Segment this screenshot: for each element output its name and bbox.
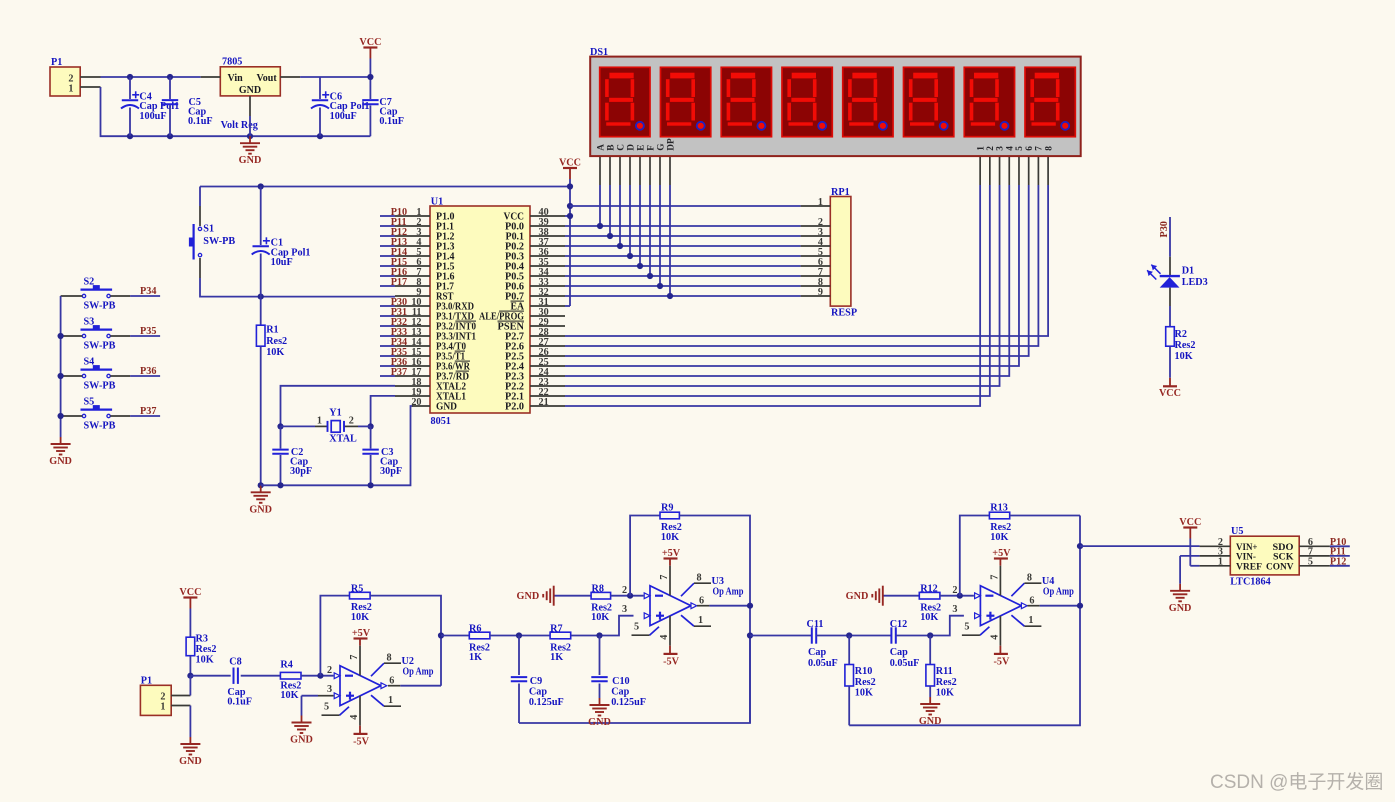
wire net P37 — [380, 375, 395, 377]
wire U2 out to R6 — [441, 635, 469, 637]
svg-text:10uF: 10uF — [271, 257, 293, 268]
wire S1 bottom to RST — [199, 258, 201, 278]
svg-text:8: 8 — [387, 653, 392, 664]
display DS1 8-digit seven-segment — [590, 57, 1080, 157]
svg-text:10K: 10K — [591, 612, 609, 623]
wire P2.4 row to DS1 digit pin 5 — [565, 185, 1019, 366]
wire P2.0 row to DS1 digit pin 1 — [565, 185, 980, 406]
svg-text:C12: C12 — [890, 619, 908, 630]
wire R6 to R7 — [490, 635, 550, 637]
pin U1-33 P0.6 — [530, 285, 565, 287]
junction — [277, 482, 283, 488]
svg-text:SW-PB: SW-PB — [84, 420, 116, 431]
wire DS1 segment pin B — [609, 156, 611, 185]
svg-text:C: C — [616, 144, 626, 151]
svg-text:1: 1 — [1218, 557, 1223, 568]
svg-text:30pF: 30pF — [380, 466, 402, 477]
wire net P36 — [380, 365, 395, 367]
svg-text:GND: GND — [919, 716, 942, 727]
seven-segment digit cell 2 — [660, 67, 710, 136]
junction — [258, 183, 264, 189]
wire net P15 — [380, 265, 395, 267]
svg-text:GND: GND — [1169, 603, 1192, 614]
seven-segment digit cell 8 — [1025, 67, 1075, 136]
svg-text:5: 5 — [1015, 146, 1025, 151]
pin U1-37 P0.2 — [530, 245, 565, 247]
junction — [1077, 603, 1083, 609]
ground symbol GND of 7805 — [249, 136, 251, 143]
seven-segment digit cell 1 — [600, 67, 650, 136]
switch S2 SW-PB net P34 — [81, 289, 113, 291]
svg-text:S5: S5 — [84, 397, 95, 408]
pin U1-12 P3.2/INT0 — [395, 325, 430, 327]
wire P1 pin1 to ground — [189, 706, 191, 738]
svg-text:0.125uF: 0.125uF — [529, 697, 564, 708]
resistor R10 Res2 10K — [848, 636, 850, 665]
resistor R2 Res2 10K — [1166, 327, 1175, 347]
svg-text:GND: GND — [239, 85, 261, 96]
pin U1-17 P3.7/RD — [395, 375, 430, 377]
junction — [647, 273, 653, 279]
resistor R3 Res2 10K — [186, 637, 195, 656]
svg-text:6: 6 — [389, 675, 394, 686]
svg-text:CSDN @电子开发圈: CSDN @电子开发圈 — [1210, 771, 1383, 793]
wire net P34 — [380, 345, 395, 347]
svg-text:R1: R1 — [266, 325, 278, 336]
svg-text:RESP: RESP — [831, 307, 857, 318]
svg-text:R12: R12 — [920, 584, 938, 595]
capacitor C1 Cap Pol1 10uF — [260, 187, 262, 246]
pin U1-38 P0.1 — [530, 235, 565, 237]
pin RP1-3 — [801, 235, 831, 237]
wire R2 to VCC — [1169, 346, 1171, 378]
svg-text:8: 8 — [1027, 573, 1032, 584]
wire VCC pin40 — [565, 215, 570, 217]
LED emission arrows — [1151, 265, 1160, 274]
wire net P33 — [380, 335, 395, 337]
pin U1-26 P2.5 — [530, 355, 565, 357]
svg-text:P35: P35 — [140, 326, 156, 337]
svg-text:Res2: Res2 — [1175, 340, 1196, 351]
svg-text:P34: P34 — [140, 286, 156, 297]
pin RP1-1 — [801, 205, 831, 207]
svg-text:2: 2 — [986, 146, 996, 151]
svg-text:C8: C8 — [229, 657, 241, 668]
svg-text:SW-PB: SW-PB — [84, 380, 116, 391]
pin P1-2 — [80, 76, 100, 78]
wire VCC to RP1 pin1 — [570, 205, 801, 207]
svg-text:21: 21 — [539, 397, 549, 408]
svg-text:8: 8 — [1044, 146, 1054, 151]
capacitor C2 Cap 30pF — [280, 426, 282, 448]
wire key ground rail — [60, 296, 62, 437]
svg-text:GND: GND — [517, 591, 540, 602]
junction — [667, 293, 673, 299]
resistor R13 Res2 10K feedback — [960, 516, 990, 596]
svg-text:5: 5 — [964, 622, 969, 633]
svg-text:Y1: Y1 — [329, 408, 341, 419]
svg-text:-5V: -5V — [663, 657, 679, 668]
pin U1-14 P3.4/T0 — [395, 345, 430, 347]
resistor R7 Res2 1K — [550, 632, 571, 639]
wire U4 output — [1027, 605, 1039, 607]
svg-text:4: 4 — [1005, 146, 1015, 151]
wire net P10 — [380, 215, 395, 217]
pin U1-4 P1.3 — [395, 245, 430, 247]
svg-text:F: F — [646, 145, 656, 151]
pin U1-25 P2.4 — [530, 365, 565, 367]
pin U1-2 P1.1 — [395, 225, 430, 227]
pin P1-2 — [171, 695, 190, 697]
svg-text:R8: R8 — [592, 584, 604, 595]
junction — [127, 74, 133, 80]
resistor pack RP1 RESP — [830, 197, 851, 307]
wire P2.6 row to DS1 digit pin 7 — [565, 185, 1038, 346]
svg-text:4: 4 — [349, 715, 360, 720]
svg-text:10K: 10K — [266, 347, 284, 358]
svg-text:9: 9 — [818, 287, 823, 298]
ground symbol GND at U4 pin2 (R12) — [883, 595, 920, 597]
pin RP1-4 — [801, 245, 831, 247]
capacitor C10 Cap 0.125uF — [599, 636, 601, 676]
svg-text:U4: U4 — [1042, 576, 1054, 587]
svg-text:Res2: Res2 — [196, 644, 217, 655]
svg-text:P1: P1 — [141, 675, 152, 686]
wire P2.1 row to DS1 digit pin 2 — [565, 185, 990, 396]
pin P1-1 — [171, 705, 190, 707]
junction — [657, 283, 663, 289]
svg-text:0.125uF: 0.125uF — [611, 697, 646, 708]
svg-text:R4: R4 — [280, 659, 292, 670]
svg-text:P37: P37 — [140, 406, 156, 417]
pin RP1-8 — [801, 285, 831, 287]
wire P0.3 row — [565, 255, 801, 257]
svg-text:2: 2 — [622, 585, 627, 596]
svg-text:C11: C11 — [807, 619, 824, 630]
svg-text:7: 7 — [1035, 146, 1045, 151]
wire net P30 — [380, 305, 395, 307]
pin RP1-5 — [801, 255, 831, 257]
svg-text:1: 1 — [1028, 615, 1033, 626]
svg-text:GND: GND — [49, 456, 72, 467]
svg-text:CONV: CONV — [1266, 561, 1294, 572]
pin U1-6 P1.5 — [395, 265, 430, 267]
svg-text:3: 3 — [996, 146, 1006, 151]
svg-text:1K: 1K — [469, 652, 482, 663]
capacitor C5 Cap 0.1uF — [169, 77, 171, 99]
capacitor C7 Cap 0.1uF — [369, 77, 371, 99]
pin U1-9 RST — [395, 295, 430, 297]
pin U5-2 VIN+ — [1200, 545, 1231, 547]
svg-text:100uF: 100uF — [330, 111, 357, 122]
svg-text:S4: S4 — [84, 357, 95, 368]
wire XTAL ground rail to U1 GND pin20 — [261, 406, 413, 485]
svg-text:U2: U2 — [402, 656, 414, 667]
wire VCC reset rail — [200, 186, 570, 188]
pin U5-7 SCK — [1299, 555, 1330, 557]
wire input rail to 7805 Vin — [101, 76, 201, 78]
junction — [596, 632, 602, 638]
wire C12 to U4 pin3 riser — [896, 616, 964, 636]
svg-text:GND: GND — [179, 756, 202, 767]
svg-text:6: 6 — [1029, 595, 1034, 606]
svg-text:VREF: VREF — [1236, 561, 1262, 572]
pin U1-23 P2.2 — [530, 385, 565, 387]
svg-text:Cap: Cap — [529, 687, 547, 698]
svg-text:S3: S3 — [84, 317, 95, 328]
pin U1-32 P0.7 — [530, 295, 565, 297]
svg-text:2: 2 — [349, 415, 354, 426]
pin U1-7 P1.6 — [395, 275, 430, 277]
wire P30 to LED — [1169, 217, 1171, 257]
capacitor C6 Cap Pol1 100uF — [319, 77, 321, 99]
svg-text:Cap: Cap — [611, 687, 629, 698]
junction — [567, 183, 573, 189]
wire net P12 — [380, 235, 395, 237]
power port VCC bottom (LED) — [1169, 378, 1171, 387]
svg-text:R5: R5 — [351, 584, 363, 595]
IC U1 8051 — [430, 206, 530, 413]
wire C11 to C12 — [816, 635, 891, 637]
wire net P12 — [1330, 565, 1350, 567]
op-amp U3 — [650, 586, 691, 626]
svg-text:S1: S1 — [203, 224, 214, 235]
wire C9 bottom rail to U3 output — [519, 636, 750, 724]
svg-text:VCC: VCC — [559, 158, 581, 169]
svg-text:10K: 10K — [196, 655, 214, 666]
wire P0.0 row — [565, 225, 801, 227]
wire P0.6 row — [565, 285, 801, 287]
junction — [258, 294, 264, 300]
svg-text:0.1uF: 0.1uF — [379, 116, 404, 127]
svg-text:20: 20 — [411, 397, 421, 408]
pin U1-8 P1.7 — [395, 285, 430, 287]
svg-text:R9: R9 — [661, 503, 673, 514]
svg-text:+5V: +5V — [352, 628, 371, 639]
pin U1-3 P1.2 — [395, 235, 430, 237]
pin 7805 Vout — [280, 76, 300, 78]
svg-text:Res2: Res2 — [936, 677, 957, 688]
pin U1-34 P0.5 — [530, 275, 565, 277]
wire net P10 — [1330, 545, 1350, 547]
ground symbol GND of C10 — [599, 698, 601, 705]
seven-segment digit cell 3 — [721, 67, 771, 136]
svg-text:-5V: -5V — [353, 737, 369, 748]
junction — [258, 482, 264, 488]
wire XTAL1 pin19 — [371, 396, 395, 427]
capacitor C11 Cap 0.05uF — [811, 627, 813, 643]
pin P1-1 — [80, 86, 100, 88]
svg-text:U5: U5 — [1231, 526, 1243, 537]
junction — [317, 673, 323, 679]
wire P2.3 row to DS1 digit pin 4 — [565, 185, 1009, 376]
pin U1-19 XTAL1 — [395, 395, 430, 397]
svg-text:R2: R2 — [1175, 329, 1187, 340]
wire P0.5 row — [565, 275, 801, 277]
connector P1 (signal input) — [140, 685, 171, 715]
pin U1-35 P0.4 — [530, 265, 565, 267]
svg-text:GND: GND — [249, 504, 272, 515]
wire net P13 — [380, 245, 395, 247]
svg-text:10K: 10K — [280, 690, 298, 701]
pin U1-27 P2.6 — [530, 345, 565, 347]
svg-text:10K: 10K — [920, 612, 938, 623]
svg-text:0.1uF: 0.1uF — [227, 697, 252, 708]
seven-segment digit cell 6 — [904, 67, 954, 136]
svg-text:GND: GND — [588, 717, 611, 728]
wire net P11 — [380, 225, 395, 227]
pin RP1-2 — [801, 225, 831, 227]
capacitor C9 Cap 0.125uF — [518, 636, 520, 676]
wire R9 to output vertical — [679, 516, 750, 724]
wire DS1 segment pin D — [629, 156, 631, 185]
wire DS1 segment pin A — [599, 156, 601, 185]
wire DS1 segment pin E — [639, 156, 641, 185]
svg-text:GND: GND — [239, 155, 262, 166]
junction — [607, 233, 613, 239]
svg-text:Cap: Cap — [890, 647, 908, 658]
wire net P31 — [380, 315, 395, 317]
svg-text:+5V: +5V — [992, 548, 1011, 559]
wire P1 pin1 to ground rail — [101, 87, 371, 136]
pin 7805 GND — [249, 96, 251, 116]
wire C8 to R4 — [241, 675, 281, 677]
junction — [927, 632, 933, 638]
svg-text:D1: D1 — [1182, 266, 1194, 277]
svg-text:VCC: VCC — [179, 587, 201, 598]
diode D1 LED3 — [1160, 275, 1180, 277]
svg-text:SW-PB: SW-PB — [203, 236, 235, 247]
svg-text:B: B — [606, 144, 616, 150]
svg-text:2: 2 — [952, 585, 957, 596]
svg-text:1: 1 — [317, 415, 322, 426]
resistor R1 Res2 10K — [260, 297, 262, 326]
wire XTAL2 pin18 — [281, 386, 396, 427]
ground symbol GND of keys — [60, 437, 62, 444]
pin U1-5 P1.4 — [395, 255, 430, 257]
wire U2 pin3 to GND — [302, 695, 319, 697]
resistor R4 Res2 10K — [280, 672, 301, 679]
svg-text:10K: 10K — [1175, 351, 1193, 362]
pin RP1-7 — [801, 275, 831, 277]
wire P0.7 row — [565, 295, 801, 297]
wire Vout to VCC corner — [300, 76, 370, 78]
svg-text:C10: C10 — [612, 676, 630, 687]
wire net P14 — [380, 255, 395, 257]
svg-text:Res2: Res2 — [855, 677, 876, 688]
wire P0.2 row — [565, 245, 801, 247]
op-amp U2 — [340, 666, 381, 706]
wire U2 output — [388, 685, 400, 687]
pin U1-40 VCC — [530, 215, 565, 217]
svg-text:Op Amp: Op Amp — [1043, 587, 1074, 598]
pin U1-13 P3.3/INT1 — [395, 335, 430, 337]
svg-text:1: 1 — [818, 197, 823, 208]
wire R8 to U3 pin2 — [611, 595, 644, 597]
junction VCC — [367, 74, 373, 80]
switch S4 SW-PB net P36 — [81, 369, 113, 371]
seven-segment digit cell 5 — [843, 67, 893, 136]
pin U1-20 GND — [412, 405, 430, 407]
resistor R5 Res2 10K feedback — [320, 596, 349, 676]
svg-text:Op Amp: Op Amp — [403, 667, 434, 678]
svg-text:5: 5 — [1308, 557, 1313, 568]
ground symbol GND of U5 — [1179, 584, 1181, 591]
junction — [747, 603, 753, 609]
capacitor C3 Cap 30pF — [370, 426, 372, 448]
svg-text:DP: DP — [666, 138, 676, 151]
svg-text:+5V: +5V — [662, 548, 681, 559]
pin U1-10 P3.0/RXD — [395, 305, 430, 307]
ground symbol GND of P1 — [189, 737, 191, 744]
svg-text:4: 4 — [659, 635, 670, 640]
svg-text:D: D — [626, 144, 636, 151]
svg-text:R13: R13 — [990, 503, 1008, 514]
svg-text:P12: P12 — [1330, 557, 1346, 568]
pin U1-29 PSEN — [530, 325, 565, 327]
svg-text:1: 1 — [68, 83, 73, 94]
junction — [627, 253, 633, 259]
svg-text:R3: R3 — [196, 634, 208, 645]
junction — [438, 632, 444, 638]
svg-text:6: 6 — [1025, 146, 1035, 151]
svg-text:R10: R10 — [855, 666, 873, 677]
wire DS1 segment pin DP — [669, 156, 671, 185]
resistor R6 Res2 1K — [469, 632, 490, 639]
svg-text:VCC: VCC — [359, 37, 381, 48]
ground symbol GND of R1 — [260, 485, 262, 492]
seven-segment digit cell 4 — [782, 67, 832, 136]
pin 7805 Vin — [201, 76, 221, 78]
svg-text:7: 7 — [989, 575, 1000, 580]
svg-text:SW-PB: SW-PB — [84, 300, 116, 311]
wire P0.4 row — [565, 265, 801, 267]
svg-text:Res2: Res2 — [266, 336, 287, 347]
svg-text:1K: 1K — [550, 652, 563, 663]
svg-text:1: 1 — [160, 701, 165, 712]
ADC U5 LTC1864 — [1230, 536, 1299, 575]
svg-text:8051: 8051 — [431, 416, 451, 427]
junction — [617, 243, 623, 249]
pin U1-31 EA — [530, 305, 565, 307]
switch S1 SW-PB (reset) — [199, 187, 201, 207]
svg-text:Op Amp: Op Amp — [713, 587, 744, 598]
junction — [187, 673, 193, 679]
svg-text:100uF: 100uF — [139, 111, 166, 122]
svg-text:30pF: 30pF — [290, 466, 312, 477]
wire DS1 segment pin G — [659, 156, 661, 185]
svg-text:U1: U1 — [431, 196, 443, 207]
svg-text:7: 7 — [659, 575, 670, 580]
junction — [637, 263, 643, 269]
svg-text:GND: GND — [290, 735, 313, 746]
svg-text:P30: P30 — [1159, 221, 1170, 237]
pin U5-3 VIN- — [1200, 555, 1231, 557]
pin U1-1 P1.0 — [395, 215, 430, 217]
wire R4 to U2 pin2 — [301, 675, 334, 677]
seven-segment digit cell 7 — [964, 67, 1014, 136]
svg-text:U3: U3 — [712, 576, 724, 587]
pin U1-24 P2.3 — [530, 375, 565, 377]
svg-text:7805: 7805 — [222, 57, 242, 68]
wire R7 to U3 pin3 riser — [571, 616, 634, 636]
wire LED to R2 — [1169, 288, 1171, 306]
wire P2.2 row to DS1 digit pin 3 — [565, 185, 1000, 386]
resistor R12 Res2 10K — [919, 592, 940, 599]
svg-text:3: 3 — [622, 604, 627, 615]
svg-text:E: E — [636, 144, 646, 150]
svg-text:10K: 10K — [936, 688, 954, 699]
